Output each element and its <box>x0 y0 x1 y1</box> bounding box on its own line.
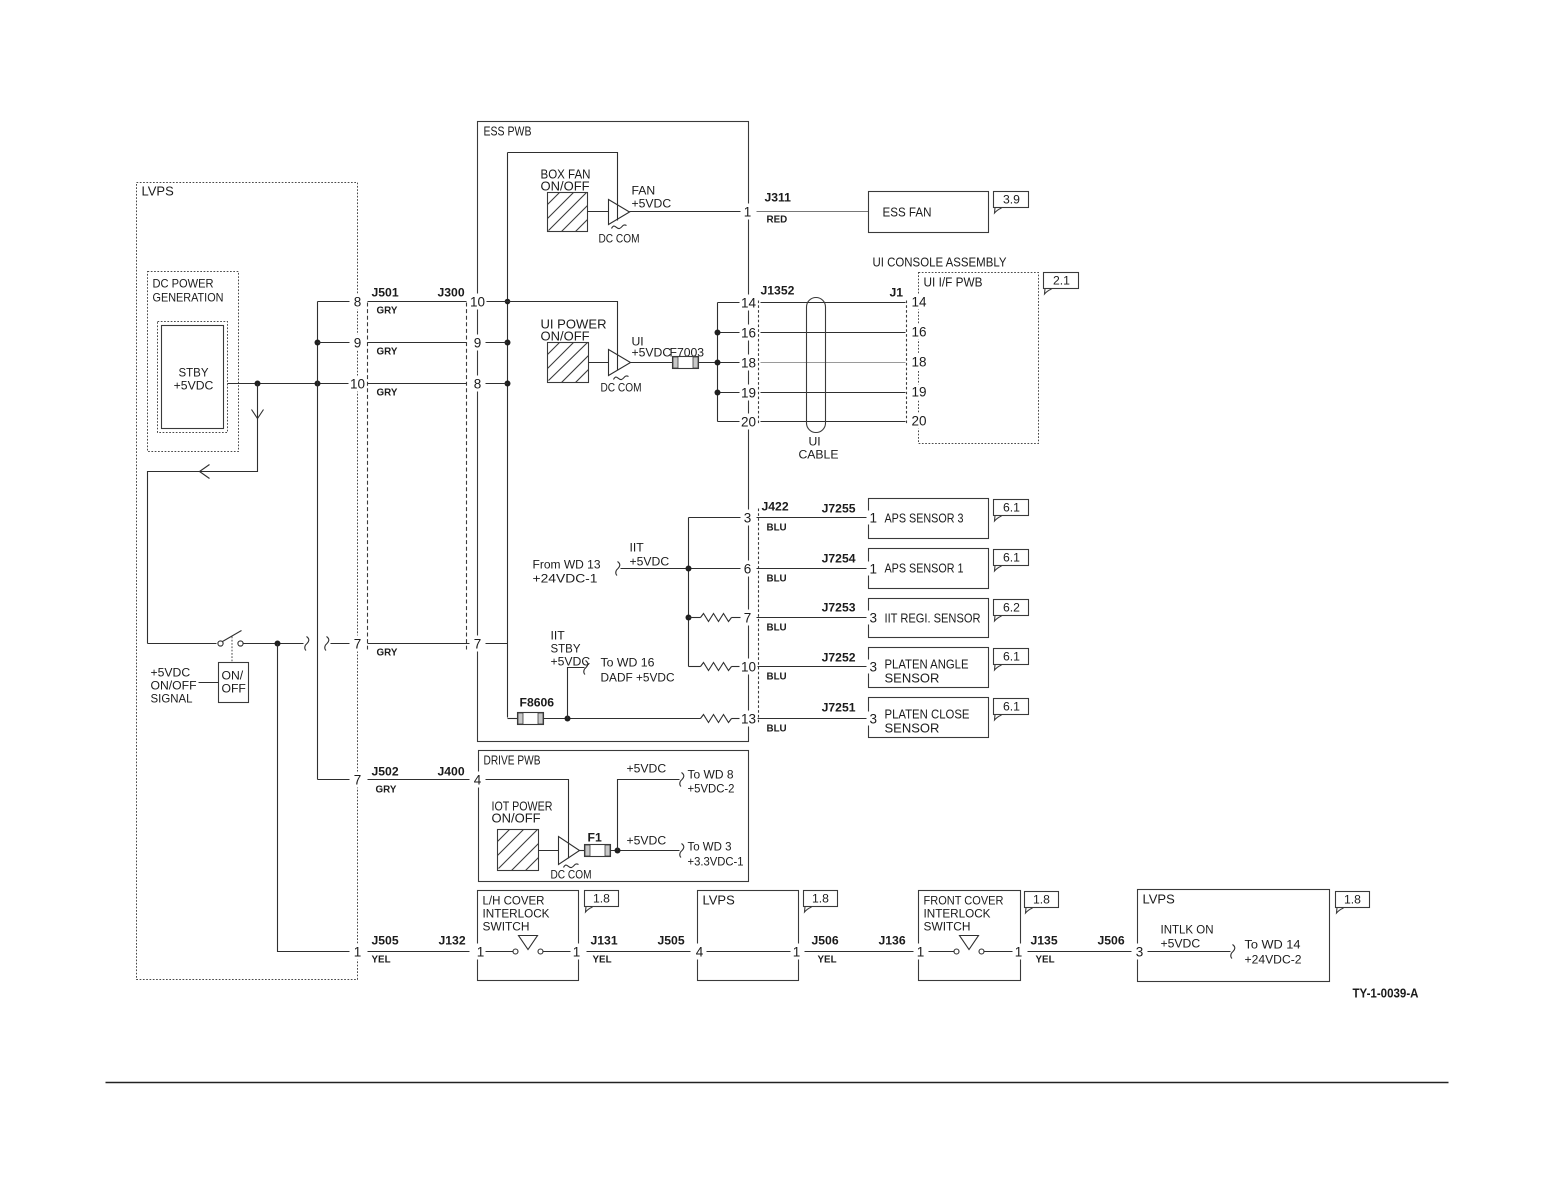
wire break squiggle WD8 <box>680 773 684 787</box>
wire: junction down to J505-1 row <box>278 644 350 952</box>
flag 6.1 <box>994 500 1029 522</box>
DC COM squiggle UI <box>614 376 629 380</box>
flag 1.8 <box>585 891 619 913</box>
pin masks: bottom row boxes <box>571 944 1148 960</box>
svg-text:APS SENSOR 3: APS SENSOR 3 <box>885 511 964 526</box>
svg-text:IIT: IIT <box>551 629 566 643</box>
wire: fuse to J1352 bracket <box>699 362 718 364</box>
svg-text:3: 3 <box>744 511 752 526</box>
flag 1.8 <box>1336 892 1370 914</box>
connector J1 dashed line <box>906 301 908 424</box>
wire: J422-13 to J7251 <box>756 718 869 720</box>
control block UI POWER (hatched) <box>548 343 589 383</box>
svg-text:J1352: J1352 <box>761 284 795 298</box>
svg-text:14: 14 <box>912 295 928 310</box>
wire: hatch to UI buffer <box>589 362 609 364</box>
svg-text:DC COM: DC COM <box>601 381 642 395</box>
bottom rule <box>106 1082 1449 1084</box>
svg-text:3: 3 <box>870 712 878 727</box>
svg-text:+5VDC: +5VDC <box>632 346 672 360</box>
wire break squiggle DADF <box>584 661 588 675</box>
fuse F1 <box>585 845 611 857</box>
buffer U-UI triangle <box>609 350 631 376</box>
connector J300 dashed line <box>466 303 468 650</box>
svg-text:PLATEN ANGLE: PLATEN ANGLE <box>885 657 969 672</box>
interlock switch FRONT <box>926 936 1013 955</box>
PLATEN CLOSE SENSOR box <box>867 698 989 738</box>
wire: INTLK to WD14 <box>1147 951 1231 953</box>
svg-text:4: 4 <box>474 773 482 788</box>
svg-text:9: 9 <box>474 336 482 351</box>
svg-text:ON/OFF: ON/OFF <box>492 811 541 826</box>
wire break squiggle left <box>305 637 309 651</box>
wire break squiggle WD13 <box>616 562 620 576</box>
wire: J505-1 to J132-1 <box>368 951 471 953</box>
svg-text:UI I/F PWB: UI I/F PWB <box>924 275 983 290</box>
PLATEN ANGLE SENSOR box <box>867 648 989 688</box>
svg-text:+5VDC: +5VDC <box>151 666 191 680</box>
bus: ESS PWB +5VDC vertical <box>507 153 509 718</box>
wire stubs to J1352 pins <box>718 302 742 304</box>
wire: buffer to fuse F1 <box>580 850 585 852</box>
svg-text:J7254: J7254 <box>822 552 856 566</box>
svg-text:6.1: 6.1 <box>1003 700 1020 714</box>
DC POWER GENERATION block <box>148 272 239 452</box>
svg-text:ON/OFF: ON/OFF <box>151 679 197 693</box>
svg-text:19: 19 <box>912 385 927 400</box>
arrowhead down <box>252 410 264 419</box>
wire: J501-9 to J300-9 <box>368 342 467 344</box>
svg-text:J506: J506 <box>812 934 839 948</box>
svg-text:+24VDC-1: +24VDC-1 <box>533 572 598 586</box>
node: IIT STBY tap junction <box>565 716 571 722</box>
svg-text:20: 20 <box>912 414 927 429</box>
control block BOX FAN (hatched) <box>548 193 588 232</box>
svg-text:APS SENSOR 1: APS SENSOR 1 <box>885 561 964 576</box>
IIT REGI SENSOR box <box>867 599 989 638</box>
svg-text:1: 1 <box>354 945 362 960</box>
svg-text:GRY: GRY <box>377 388 398 399</box>
svg-text:LVPS: LVPS <box>703 893 736 908</box>
wire: UI buffer to fuse <box>631 362 673 364</box>
svg-text:+5VDC-2: +5VDC-2 <box>688 782 735 796</box>
svg-text:1: 1 <box>793 945 801 960</box>
svg-text:+5VDC: +5VDC <box>551 655 591 669</box>
wire: J1352-19 to J1-19 <box>761 392 906 394</box>
flag 1.8 <box>804 891 838 913</box>
svg-text:LVPS: LVPS <box>1143 892 1176 907</box>
svg-text:INTLK ON: INTLK ON <box>1161 923 1214 937</box>
svg-text:+24VDC-2: +24VDC-2 <box>1245 953 1302 967</box>
node: F1 output junction <box>615 848 621 854</box>
svg-text:BLU: BLU <box>767 672 787 683</box>
svg-text:6.1: 6.1 <box>1003 551 1020 565</box>
wire: J300-8 into ESS PWB <box>485 383 508 385</box>
svg-text:J7255: J7255 <box>822 502 856 516</box>
svg-text:FRONT COVER: FRONT COVER <box>924 894 1004 908</box>
svg-text:1: 1 <box>477 945 485 960</box>
svg-text:CABLE: CABLE <box>799 448 839 462</box>
svg-text:+5VDC: +5VDC <box>1161 937 1201 951</box>
flag 6.2 <box>994 600 1029 622</box>
svg-text:J132: J132 <box>439 934 466 948</box>
svg-text:2.1: 2.1 <box>1053 274 1070 288</box>
svg-text:1.8: 1.8 <box>1033 893 1050 907</box>
svg-text:3: 3 <box>1136 945 1144 960</box>
wire: bus to J501-9 <box>318 342 350 344</box>
wire: J501-10 to J300-8 <box>368 383 467 385</box>
svg-text:IIT: IIT <box>630 541 645 555</box>
svg-text:BLU: BLU <box>767 724 787 735</box>
DRIVE PWB box <box>479 751 749 882</box>
svg-text:+5VDC: +5VDC <box>627 762 667 776</box>
svg-text:1: 1 <box>1015 945 1023 960</box>
wire: J506 to J136 <box>805 951 914 953</box>
ESS FAN box <box>869 192 989 233</box>
svg-text:J300: J300 <box>438 286 465 300</box>
svg-text:J7253: J7253 <box>822 601 856 615</box>
flag 3.9 <box>994 192 1029 214</box>
interlock switch LH <box>485 936 572 955</box>
svg-text:ON/: ON/ <box>222 669 244 683</box>
svg-text:16: 16 <box>741 326 756 341</box>
pin masks and numbers: ESS PWB right border <box>740 204 758 727</box>
wire break squiggle WD3 <box>680 844 684 858</box>
wire: J300-9 into ESS PWB <box>485 342 508 344</box>
svg-text:10: 10 <box>470 295 485 310</box>
svg-text:To WD 8: To WD 8 <box>688 768 734 782</box>
svg-text:J1: J1 <box>890 286 904 300</box>
STBY +5VDC supply block <box>158 322 228 433</box>
svg-text:GRY: GRY <box>377 306 398 317</box>
svg-text:DC COM: DC COM <box>599 232 640 246</box>
svg-text:6.2: 6.2 <box>1003 601 1020 615</box>
wire: IIT STBY branch <box>568 668 585 719</box>
switch: +5VDC on/off contact <box>218 631 243 663</box>
svg-text:+5VDC: +5VDC <box>627 834 667 848</box>
node: STBY output junction <box>255 381 261 387</box>
wire: J422-6 to J7254 <box>756 568 869 570</box>
svg-text:GRY: GRY <box>377 347 398 358</box>
svg-text:+5VDC: +5VDC <box>630 555 670 569</box>
UI cable capsule <box>807 298 826 433</box>
svg-text:ESS PWB: ESS PWB <box>484 124 532 139</box>
svg-text:DRIVE PWB: DRIVE PWB <box>484 753 541 768</box>
svg-text:F1: F1 <box>588 831 602 845</box>
svg-text:STBY: STBY <box>179 366 209 380</box>
svg-text:3: 3 <box>870 611 878 626</box>
svg-text:3: 3 <box>870 660 878 675</box>
wire: bus to J501-8 <box>318 301 350 303</box>
svg-text:7: 7 <box>354 637 362 652</box>
svg-text:OFF: OFF <box>222 682 246 696</box>
connector J422 dashed line <box>758 509 760 724</box>
buffer U-IOT triangle <box>559 837 580 865</box>
J1 pin labels <box>910 295 930 429</box>
wire: J300-10 into ESS PWB to UI driver <box>485 302 618 371</box>
fuse F7003 <box>673 357 699 369</box>
wire: STBY output to J501-10 <box>228 383 351 385</box>
svg-text:18: 18 <box>912 355 927 370</box>
svg-text:3.9: 3.9 <box>1003 193 1020 207</box>
flag 1.8 <box>1025 892 1059 914</box>
svg-text:L/H COVER: L/H COVER <box>483 894 545 908</box>
svg-text:GRY: GRY <box>376 785 397 796</box>
svg-text:+5VDC: +5VDC <box>174 379 214 393</box>
APS SENSOR 3 box <box>867 499 989 539</box>
wire: J135 to J506 <box>1026 951 1132 953</box>
svg-text:16: 16 <box>912 325 927 340</box>
svg-text:FAN: FAN <box>632 184 656 198</box>
wire: fuse output <box>611 850 680 852</box>
svg-text:4: 4 <box>696 945 704 960</box>
svg-text:J7252: J7252 <box>822 651 856 665</box>
flag 6.1 <box>994 649 1029 671</box>
svg-text:J505: J505 <box>658 934 685 948</box>
svg-text:UI: UI <box>809 435 821 449</box>
wire: J311-1 to ESS FAN (grey) <box>754 211 869 213</box>
svg-text:RED: RED <box>767 215 788 226</box>
wire: bus corner to fuse F8606 <box>508 718 518 720</box>
svg-text:6: 6 <box>744 562 752 577</box>
wire: J400-4 into DRIVE PWB <box>485 780 569 859</box>
svg-text:10: 10 <box>741 660 756 675</box>
DC COM squiggle IOT <box>564 864 579 868</box>
svg-text:J7251: J7251 <box>822 701 856 715</box>
LVPS enclosure box <box>137 183 358 980</box>
svg-text:From WD 13: From WD 13 <box>533 558 601 572</box>
svg-text:SWITCH: SWITCH <box>924 920 971 934</box>
svg-text:1.8: 1.8 <box>812 892 829 906</box>
svg-text:SENSOR: SENSOR <box>885 721 940 736</box>
node: bracket pin7 junction <box>686 615 692 621</box>
svg-text:BLU: BLU <box>767 623 787 634</box>
svg-text:J135: J135 <box>1031 934 1058 948</box>
node: bus tap junction <box>315 381 321 387</box>
svg-text:20: 20 <box>741 415 756 430</box>
svg-text:SIGNAL: SIGNAL <box>151 692 193 706</box>
wire: J1352-18 to J1-18 (light) <box>761 362 906 364</box>
node: bracket junctions <box>715 330 721 336</box>
svg-text:1.8: 1.8 <box>593 892 610 906</box>
svg-text:YEL: YEL <box>593 955 612 966</box>
wire: signal to ON/OFF box <box>199 682 219 684</box>
wire: fuse to resistor J422-13 <box>544 718 701 720</box>
svg-text:+5VDC: +5VDC <box>632 197 672 211</box>
pin masks and numbers: LVPS right border <box>349 294 367 960</box>
ON/OFF control box <box>219 663 249 703</box>
svg-text:SWITCH: SWITCH <box>483 920 530 934</box>
node: bus pin8 junction <box>505 381 511 387</box>
svg-text:TY-1-0039-A: TY-1-0039-A <box>1353 986 1419 1001</box>
bracket: J422 pin bus <box>688 518 690 667</box>
svg-text:7: 7 <box>744 611 752 626</box>
resistor at J422-7 <box>689 614 742 622</box>
node: bus pin9 junction <box>505 340 511 346</box>
svg-text:To WD 16: To WD 16 <box>601 656 655 670</box>
flag 2.1 <box>1044 273 1079 295</box>
svg-text:YEL: YEL <box>1036 955 1055 966</box>
DC COM squiggle fan <box>612 225 627 229</box>
svg-text:18: 18 <box>741 356 756 371</box>
wire: switch output to junction <box>244 643 304 645</box>
wire: WD13 feed to J422-6 <box>621 568 742 570</box>
svg-text:J136: J136 <box>879 934 906 948</box>
wire: hatch to IOT buffer <box>539 850 559 852</box>
ESS PWB enclosure <box>478 122 749 742</box>
svg-text:J502: J502 <box>372 765 399 779</box>
svg-text:PLATEN CLOSE: PLATEN CLOSE <box>885 707 970 722</box>
node: bracket pin6 junction <box>686 566 692 572</box>
svg-text:9: 9 <box>354 336 362 351</box>
wire: J131 to J505 <box>585 951 695 953</box>
bracket: J1352 pin bus <box>717 303 719 422</box>
connector J501 dashed line <box>367 303 369 650</box>
wire: J501-8 to J300-10 <box>368 301 467 303</box>
svg-text:DC COM: DC COM <box>551 868 592 882</box>
svg-text:J131: J131 <box>591 934 618 948</box>
svg-text:ON/OFF: ON/OFF <box>541 329 590 344</box>
wire: J501-7 to J300-7 <box>368 643 471 645</box>
wire: J1352-14 to J1-14 <box>761 302 906 304</box>
svg-text:1: 1 <box>917 945 925 960</box>
L/H COVER INTERLOCK SWITCH box <box>478 891 579 981</box>
svg-text:1.8: 1.8 <box>1344 893 1361 907</box>
svg-text:6.1: 6.1 <box>1003 650 1020 664</box>
svg-text:GRY: GRY <box>377 648 398 659</box>
wire: hatch to fan buffer <box>588 211 609 213</box>
flag 6.1 <box>994 699 1029 721</box>
wire: bus to J502-7 <box>318 779 350 781</box>
wire: J1352-20 to J1-20 <box>761 421 906 423</box>
svg-text:1: 1 <box>870 511 878 526</box>
FRONT COVER INTERLOCK SWITCH box <box>919 891 1021 981</box>
svg-text:IIT REGI. SENSOR: IIT REGI. SENSOR <box>885 611 981 626</box>
svg-text:INTERLOCK: INTERLOCK <box>924 907 991 921</box>
flag 6.1 <box>994 550 1029 572</box>
svg-text:J506: J506 <box>1098 934 1125 948</box>
svg-text:1: 1 <box>744 205 752 220</box>
svg-text:UI CONSOLE ASSEMBLY: UI CONSOLE ASSEMBLY <box>873 255 1007 270</box>
svg-text:14: 14 <box>741 296 757 311</box>
svg-text:1: 1 <box>870 562 878 577</box>
wire: to J501-7 <box>331 643 350 645</box>
LVPS middle box <box>698 891 799 981</box>
svg-text:7: 7 <box>474 637 482 652</box>
svg-text:J400: J400 <box>438 765 465 779</box>
svg-text:SENSOR: SENSOR <box>885 671 940 686</box>
bus: +5VDC distribution vertical <box>317 302 319 780</box>
svg-text:YEL: YEL <box>372 955 391 966</box>
wire: J502-7 to J400-4 <box>368 779 471 781</box>
buffer U-FAN triangle <box>609 200 630 225</box>
svg-text:To WD 3: To WD 3 <box>688 840 732 854</box>
svg-text:6.1: 6.1 <box>1003 501 1020 515</box>
svg-text:DADF +5VDC: DADF +5VDC <box>601 671 675 685</box>
fuse F8606 <box>518 713 544 725</box>
wire: J422-10 to J7252 <box>756 666 869 668</box>
APS SENSOR 1 box <box>867 549 989 589</box>
wire: branch up to WD8 <box>618 780 680 851</box>
svg-text:19: 19 <box>741 386 756 401</box>
svg-text:1: 1 <box>573 945 581 960</box>
svg-text:INTERLOCK: INTERLOCK <box>483 907 550 921</box>
UI I/F PWB box <box>919 273 1039 444</box>
svg-text:7: 7 <box>354 773 362 788</box>
svg-text:ESS FAN: ESS FAN <box>883 205 932 220</box>
node: switch output junction <box>275 641 281 647</box>
wire break squiggle right <box>325 637 329 651</box>
wire: return path down <box>148 384 258 644</box>
wire: bus top loop to fan driver <box>508 153 618 221</box>
connector J1352 dashed line <box>758 301 760 424</box>
node: bus pin9 junction <box>315 340 321 346</box>
svg-text:To WD 14: To WD 14 <box>1245 938 1301 952</box>
svg-text:BLU: BLU <box>767 523 787 534</box>
svg-text:J311: J311 <box>765 191 792 205</box>
wire: into on/off switch <box>148 643 217 645</box>
wire: J422-7 to J7253 <box>756 617 869 619</box>
node: bus pin10 junction <box>505 299 511 305</box>
svg-text:10: 10 <box>350 377 365 392</box>
control block IOT POWER (hatched) <box>498 830 539 871</box>
arrowhead left <box>200 465 210 479</box>
wire: fan buffer to J311-1 <box>630 211 745 213</box>
LVPS right box <box>1138 890 1330 982</box>
wire: J422-3 to J7255 <box>756 517 869 519</box>
svg-text:BLU: BLU <box>767 574 787 585</box>
svg-text:8: 8 <box>354 295 362 310</box>
svg-text:J501: J501 <box>372 286 399 300</box>
resistor at J422-13 <box>701 715 742 723</box>
pin masks and numbers: ESS PWB left border <box>469 294 487 960</box>
svg-text:ON/OFF: ON/OFF <box>541 179 590 194</box>
wire: J1352-16 to J1-16 <box>761 332 906 334</box>
wire: bracket to J422-3 <box>689 517 742 519</box>
svg-text:+3.3VDC-1: +3.3VDC-1 <box>688 855 744 869</box>
svg-text:STBY: STBY <box>551 642 581 656</box>
svg-text:F8606: F8606 <box>520 696 555 710</box>
svg-text:J505: J505 <box>372 934 399 948</box>
svg-text:DC POWER: DC POWER <box>153 277 214 291</box>
wire break squiggle WD14 <box>1231 945 1235 959</box>
svg-text:8: 8 <box>474 377 482 392</box>
svg-text:13: 13 <box>741 712 756 727</box>
svg-text:YEL: YEL <box>818 955 837 966</box>
svg-text:J422: J422 <box>762 500 789 514</box>
svg-text:GENERATION: GENERATION <box>153 291 224 305</box>
label: +5VDC ON/OFF SIGNAL <box>151 666 197 706</box>
resistor at J422-10 <box>689 663 742 671</box>
svg-text:LVPS: LVPS <box>142 184 175 199</box>
wire: J300-7 into ESS PWB bus <box>485 643 508 645</box>
